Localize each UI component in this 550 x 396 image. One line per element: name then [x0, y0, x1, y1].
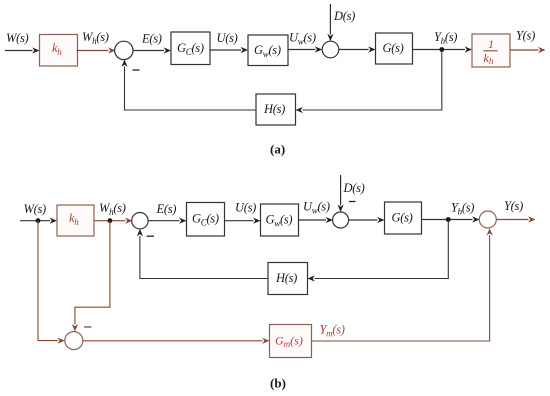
plant block G(s) (a): [376, 33, 413, 64]
controller block G_C(s) (b): [187, 203, 225, 237]
summing junction S2 (a): [322, 41, 339, 58]
takeoff node dot on W(s) (b): [36, 218, 41, 223]
wire W(s) input arrow (b): [20, 218, 57, 224]
plant block G(s) (b): [385, 202, 422, 234]
svg-text:(b): (b): [270, 376, 286, 391]
wire S2 to G (b): [349, 217, 385, 223]
minus sign at S1 (b): [147, 235, 155, 237]
wire W(s) input arrow (a): [5, 47, 40, 53]
minus sign at S1 (a): [133, 69, 140, 71]
svg-text:Uw(s): Uw(s): [303, 200, 330, 216]
svg-text:U(s): U(s): [217, 31, 238, 45]
actuator block G_w(s) (a): [248, 35, 288, 66]
summing junction S2 (b): [333, 212, 349, 228]
wire Gw to summer S2 (a): [288, 46, 322, 52]
svg-text:Wh(s): Wh(s): [99, 201, 126, 217]
sensor block H(s) (a): [256, 94, 296, 125]
wire feedback takeoff down and left into H (a): [296, 50, 442, 114]
wire G to 1/k_h with takeoff node (a): [413, 46, 473, 52]
wire Gc to Gw (b): [225, 218, 261, 224]
svg-text:Ym(s): Ym(s): [320, 323, 345, 339]
wire W_h branch down into lower summer, red (b): [72, 221, 110, 332]
wire S1 to Gc (a): [134, 47, 172, 53]
wire D(s) disturbance into S2 (a): [327, 4, 333, 41]
takeoff node dot on W_h(s) (b): [108, 218, 113, 223]
svg-text:U(s): U(s): [235, 201, 256, 215]
takeoff node dot (a): [439, 47, 444, 52]
minus sign at lower summer (b): [84, 326, 92, 328]
controller block G_C(s) (a): [171, 32, 210, 65]
wire W(s) branch down to lower summer, red (b): [38, 221, 65, 344]
wire G to output summer with takeoff node (b): [422, 216, 480, 222]
actuator block G_w(s) (b): [261, 204, 299, 236]
summing junction S1 (a): [115, 41, 133, 59]
wire Gc to Gw (a): [210, 47, 248, 53]
takeoff node dot Y_h (b): [446, 217, 451, 222]
svg-text:Yh(s): Yh(s): [451, 201, 474, 217]
wire H to S1 feedback (b): [137, 229, 268, 279]
output summing junction S3, red (b): [479, 211, 496, 228]
wire S1 to Gc (b): [148, 218, 186, 224]
svg-text:Y(s): Y(s): [516, 29, 535, 43]
wire H to S1 feedback (a): [121, 60, 256, 111]
svg-text:Uw(s): Uw(s): [289, 31, 316, 47]
wire k_h to summer, red (a): [77, 47, 116, 53]
wire D(s) disturbance into S2 (b): [338, 175, 344, 212]
svg-text:E(s): E(s): [141, 32, 162, 46]
wire Y(s) output arrow, red (a): [510, 47, 546, 53]
wire Gm output up into S3, red (b): [312, 228, 493, 341]
svg-text:W(s): W(s): [6, 31, 29, 45]
svg-text:W(s): W(s): [24, 202, 47, 216]
svg-text:Wh(s): Wh(s): [82, 30, 109, 46]
wire k_h to summer red with node (b): [94, 218, 133, 224]
wire feedback takeoff down and left into H (b): [308, 220, 449, 282]
svg-text:G(s): G(s): [392, 211, 413, 225]
svg-text:H(s): H(s): [275, 271, 297, 285]
svg-text:G(s): G(s): [383, 41, 404, 55]
wire Y(s) output arrow, red (b): [496, 216, 535, 222]
svg-text:D(s): D(s): [333, 9, 355, 23]
wire S2 to G (a): [339, 46, 376, 52]
svg-text:(a): (a): [270, 142, 285, 157]
lower summing junction S4, red (b): [65, 332, 83, 350]
model block G_m(s) (b): [270, 325, 312, 358]
svg-text:1: 1: [488, 37, 494, 51]
svg-text:Yh(s): Yh(s): [434, 30, 457, 46]
wire Gw to summer S2 (b): [299, 217, 334, 223]
gain block k_h (a): [40, 35, 78, 67]
minus sign at D(s) (b): [349, 201, 356, 203]
svg-text:E(s): E(s): [156, 202, 177, 216]
sensor block H(s) (b): [268, 263, 308, 295]
gain block k_h (b): [57, 205, 94, 236]
summing junction S1 (b): [132, 213, 148, 229]
svg-text:D(s): D(s): [343, 181, 365, 195]
svg-text:Y(s): Y(s): [504, 199, 523, 213]
scaling block 1/k_h (a): [472, 34, 510, 67]
wire S4 to Gm, red (b): [83, 338, 270, 344]
svg-text:H(s): H(s): [263, 102, 285, 116]
